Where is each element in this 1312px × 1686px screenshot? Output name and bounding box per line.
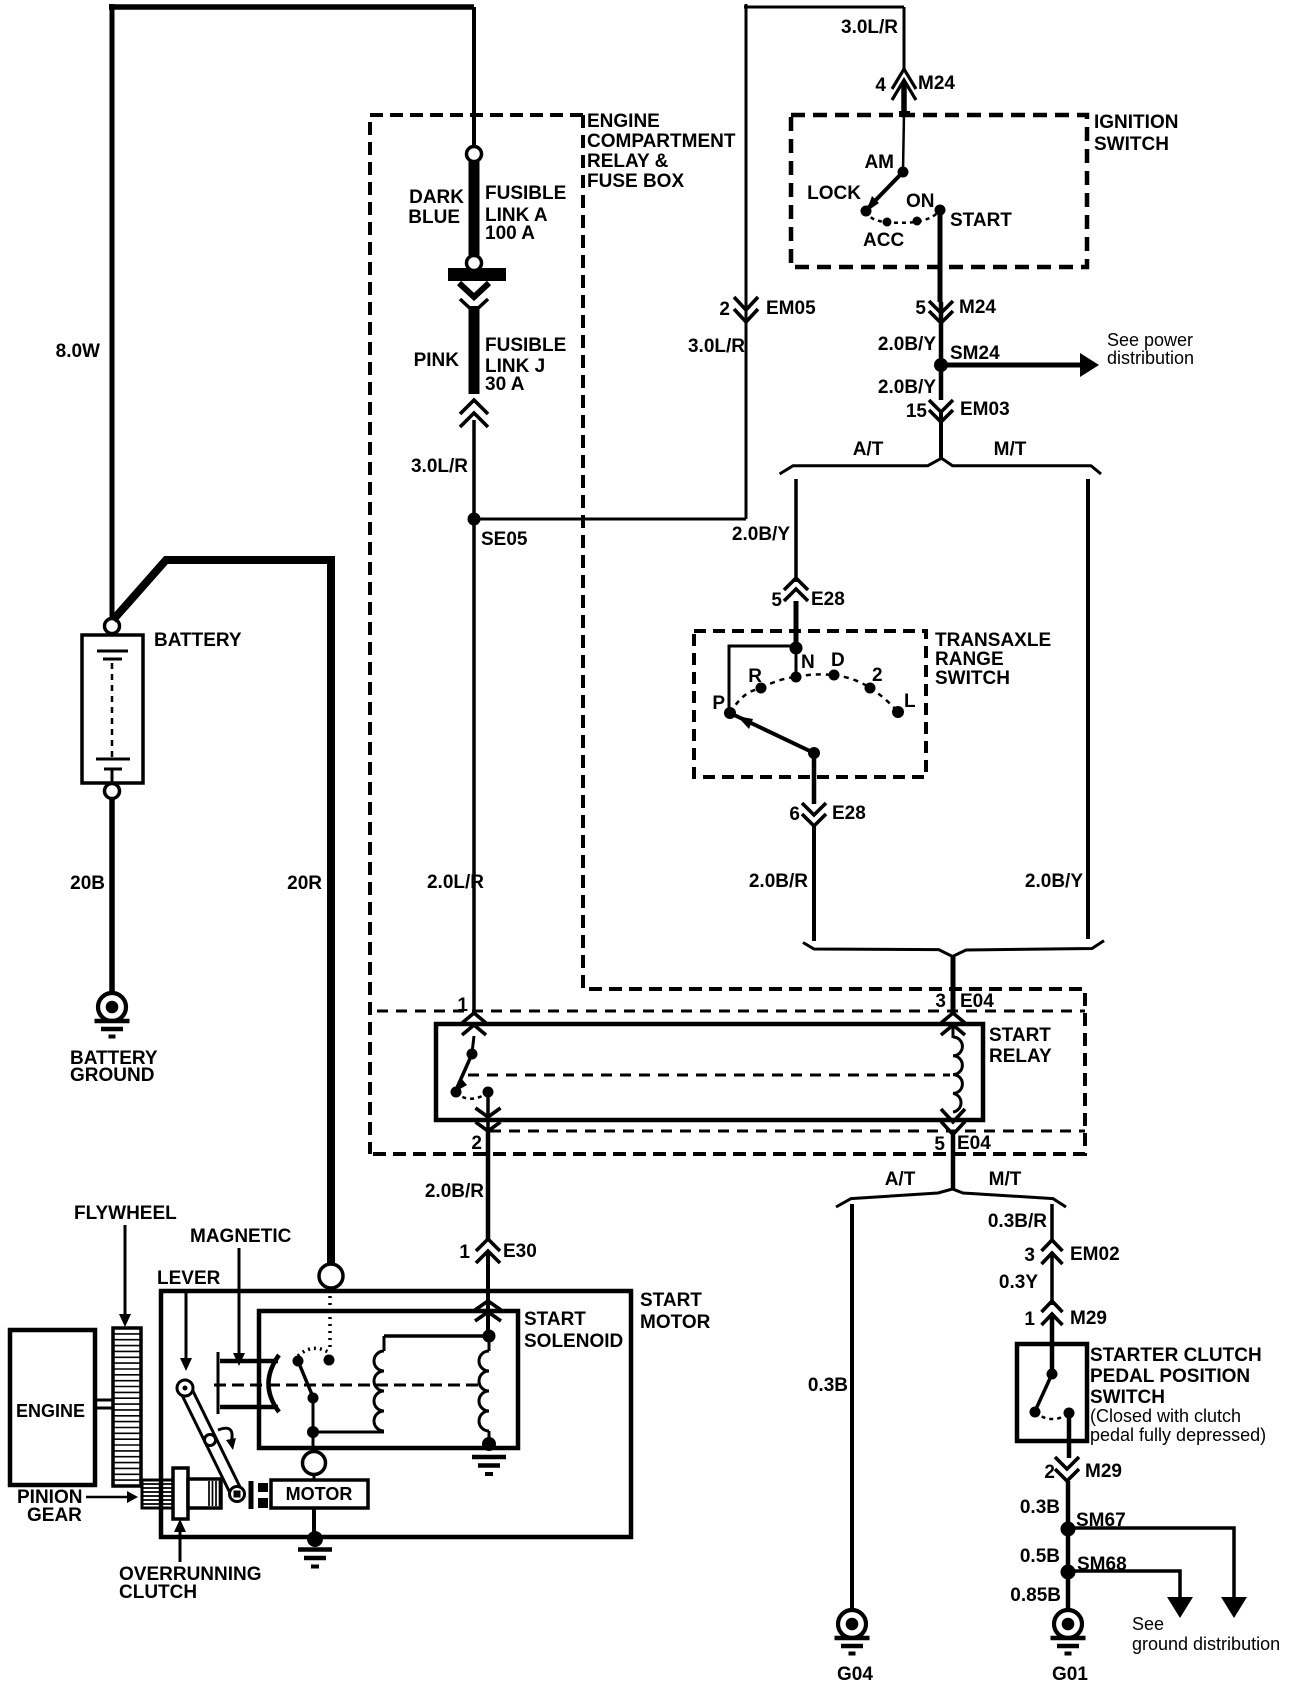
dotted arc solenoid contact bbox=[298, 1348, 328, 1356]
svg-text:2.0B/Y: 2.0B/Y bbox=[732, 524, 790, 545]
connector chevrons below fuse holder bbox=[459, 283, 489, 297]
connector E28 pin 6 bbox=[802, 803, 826, 815]
wire START output bbox=[938, 210, 943, 302]
solenoid switch blade bbox=[298, 1361, 313, 1397]
svg-text:E04: E04 bbox=[957, 1133, 991, 1154]
clutch switch output contact bbox=[1064, 1408, 1075, 1419]
magnet core flange bbox=[217, 1352, 220, 1414]
clutch switch blade bbox=[1036, 1374, 1052, 1409]
ground start motor bbox=[298, 1547, 332, 1552]
svg-text:2.0L/R: 2.0L/R bbox=[427, 872, 484, 893]
svg-text:2: 2 bbox=[471, 1133, 482, 1154]
svg-text:D: D bbox=[831, 650, 845, 671]
svg-text:START: START bbox=[524, 1309, 586, 1330]
svg-text:0.3B: 0.3B bbox=[1020, 1497, 1060, 1518]
overrunning clutch bbox=[173, 1468, 188, 1519]
svg-text:3: 3 bbox=[935, 991, 946, 1012]
switch wiper P to common bbox=[730, 713, 814, 753]
svg-text:EM03: EM03 bbox=[960, 399, 1010, 420]
wire 2.0B/R relay to E30 bbox=[486, 1131, 491, 1240]
svg-text:E28: E28 bbox=[832, 803, 866, 824]
clutch switch open contact bbox=[1030, 1407, 1041, 1418]
lever rotation arrow bbox=[218, 1428, 232, 1443]
dashed box engine compartment relay & fuse box bbox=[370, 115, 583, 1154]
svg-text:DARK: DARK bbox=[409, 187, 464, 208]
pinion gear bbox=[142, 1480, 174, 1508]
wire split brace below relay bbox=[836, 1189, 1066, 1207]
connector M24 pin 4 bbox=[892, 69, 916, 89]
wire 2.0B/R to merge bbox=[812, 826, 816, 941]
node terminal circle above fusible link A bbox=[467, 147, 482, 162]
node R contact bbox=[756, 683, 767, 694]
svg-text:LEVER: LEVER bbox=[157, 1268, 221, 1289]
dashed arc switch positions bbox=[866, 210, 940, 223]
relay switch open contact bbox=[451, 1087, 462, 1098]
svg-text:EM05: EM05 bbox=[766, 298, 816, 319]
svg-text:ENGINE: ENGINE bbox=[16, 1401, 85, 1421]
motor terminal circle bbox=[303, 1452, 326, 1475]
svg-text:GEAR: GEAR bbox=[27, 1505, 82, 1526]
svg-text:2.0B/Y: 2.0B/Y bbox=[878, 334, 936, 355]
node SM24 splice bbox=[934, 358, 948, 372]
connector M29 pin 2 bbox=[1055, 1457, 1079, 1469]
wire 20R battery to start motor bbox=[113, 560, 331, 1264]
wire to motor bbox=[313, 1474, 316, 1481]
svg-text:2: 2 bbox=[1044, 1462, 1055, 1483]
dashed box transaxle range switch bbox=[694, 631, 926, 777]
svg-text:SE05: SE05 bbox=[481, 529, 528, 550]
svg-text:M/T: M/T bbox=[989, 1169, 1022, 1190]
battery internal dashed bbox=[111, 663, 114, 757]
wire relay output pin 2 bbox=[486, 1092, 490, 1135]
start motor terminal circle bbox=[319, 1264, 343, 1288]
relay switch fixed contact bbox=[472, 1036, 474, 1053]
dashed arc relay contact bbox=[456, 1092, 488, 1099]
svg-text:GROUND: GROUND bbox=[70, 1065, 154, 1086]
node motor ground bbox=[307, 1531, 323, 1547]
svg-text:TRANSAXLE: TRANSAXLE bbox=[935, 630, 1051, 651]
connector M24 pin 5 bbox=[929, 301, 953, 313]
svg-text:SWITCH: SWITCH bbox=[1094, 134, 1169, 155]
node N contact bbox=[795, 648, 798, 675]
wire common output down bbox=[812, 753, 817, 804]
start relay box bbox=[436, 1024, 983, 1120]
svg-text:5: 5 bbox=[915, 298, 926, 319]
svg-text:A/T: A/T bbox=[885, 1169, 916, 1190]
svg-text:2: 2 bbox=[872, 665, 883, 686]
node LOCK contact bbox=[861, 206, 872, 217]
connector E28 pin 5 bbox=[784, 578, 808, 590]
lever end bbox=[230, 1487, 245, 1502]
svg-text:2.0B/R: 2.0B/R bbox=[425, 1181, 484, 1202]
svg-text:3.0L/R: 3.0L/R bbox=[411, 456, 468, 477]
wire 0.3B/R M/T branch bbox=[1050, 1204, 1054, 1241]
svg-text:20R: 20R bbox=[287, 873, 322, 894]
svg-text:ON: ON bbox=[906, 191, 935, 212]
battery bbox=[82, 635, 143, 783]
solenoid contact left bbox=[293, 1356, 304, 1367]
wire down to fusible link A bbox=[472, 7, 476, 149]
lever pivot top bbox=[177, 1380, 193, 1396]
connector EM05 pin 2 bbox=[734, 297, 758, 310]
svg-text:E04: E04 bbox=[960, 991, 994, 1012]
lever pivot middle bbox=[205, 1435, 216, 1446]
wire 2.0B/Y A/T branch to E28 bbox=[794, 479, 798, 582]
svg-text:distribution: distribution bbox=[1107, 348, 1194, 368]
svg-text:SWITCH: SWITCH bbox=[935, 668, 1010, 689]
solenoid hold-in coil bbox=[488, 1336, 491, 1351]
svg-text:LOCK: LOCK bbox=[807, 183, 861, 204]
svg-text:M24: M24 bbox=[918, 73, 955, 94]
wire SM24 to EM03 bbox=[939, 365, 944, 400]
svg-text:L: L bbox=[904, 691, 916, 712]
ground G04 bbox=[838, 1610, 866, 1638]
wire top horizontal from battery feed to fusible link bbox=[109, 4, 474, 10]
svg-text:A/T: A/T bbox=[853, 439, 884, 460]
svg-text:0.5B: 0.5B bbox=[1020, 1546, 1060, 1567]
wire EM03 to A/T M/T split bbox=[939, 412, 943, 459]
magnet core top bbox=[220, 1359, 278, 1364]
fusible link J 30 A (pink) bbox=[469, 306, 480, 394]
svg-text:2: 2 bbox=[719, 299, 730, 320]
wire merge brace to start relay bbox=[803, 941, 1104, 957]
svg-text:3.0L/R: 3.0L/R bbox=[688, 336, 745, 357]
motor box bbox=[271, 1480, 368, 1508]
svg-text:BLUE: BLUE bbox=[408, 207, 460, 228]
svg-text:See power: See power bbox=[1107, 330, 1193, 350]
svg-text:3: 3 bbox=[1024, 1245, 1035, 1266]
svg-text:FUSE BOX: FUSE BOX bbox=[587, 171, 684, 192]
magnet core crescent bbox=[269, 1355, 280, 1412]
wire SM67 branch to ground distribution bbox=[1068, 1528, 1234, 1599]
wire see power distribution arrow bbox=[941, 363, 1082, 368]
svg-text:RELAY &: RELAY & bbox=[587, 151, 669, 172]
node AM contact bbox=[898, 167, 909, 178]
svg-text:RANGE: RANGE bbox=[935, 649, 1004, 670]
wire coil top bbox=[384, 1334, 489, 1338]
svg-text:2.0B/R: 2.0B/R bbox=[749, 871, 808, 892]
svg-text:ENGINE: ENGINE bbox=[587, 111, 660, 132]
svg-text:0.3B/R: 0.3B/R bbox=[988, 1211, 1047, 1232]
svg-text:1: 1 bbox=[1024, 1309, 1035, 1330]
svg-text:R: R bbox=[748, 666, 762, 687]
node SM67 splice bbox=[1061, 1522, 1076, 1537]
engine box bbox=[10, 1330, 95, 1485]
node hold-in coil ground bbox=[482, 1437, 496, 1451]
magnet core bottom bbox=[220, 1405, 278, 1410]
wire 3.0L/R from link J down to SE05 bbox=[472, 420, 476, 519]
dashed line relay compartment bottom bbox=[490, 1130, 1085, 1133]
connector M29 pin 1 bbox=[1042, 1301, 1063, 1312]
svg-text:RELAY: RELAY bbox=[989, 1046, 1052, 1067]
switch blade AM to LOCK bbox=[868, 172, 903, 208]
node START contact bbox=[935, 205, 946, 216]
wire motor to ground bbox=[312, 1508, 316, 1533]
wire into clutch pedal switch bbox=[1050, 1314, 1055, 1374]
wire SE05 horizontal to ignition feed bbox=[474, 518, 746, 521]
wire relay output to A/T M/T split 2 bbox=[951, 1134, 956, 1190]
start motor box bbox=[161, 1291, 631, 1537]
svg-text:0.3B: 0.3B bbox=[808, 1375, 848, 1396]
wire 0.3Y bbox=[1050, 1252, 1054, 1305]
svg-text:PEDAL POSITION: PEDAL POSITION bbox=[1090, 1366, 1250, 1387]
wire junction to pull-in coil bbox=[313, 1431, 384, 1434]
wire into ignition switch bbox=[901, 82, 907, 114]
lever arm bbox=[180, 1385, 241, 1495]
svg-text:2.0B/Y: 2.0B/Y bbox=[1025, 871, 1083, 892]
wire 0.3B to SM67 bbox=[1066, 1481, 1071, 1611]
node SE05 junction bbox=[468, 513, 481, 526]
svg-text:START: START bbox=[989, 1025, 1051, 1046]
svg-text:FLYWHEEL: FLYWHEEL bbox=[74, 1203, 177, 1224]
svg-text:8.0W: 8.0W bbox=[56, 341, 100, 362]
connector E30 pin 1 bbox=[476, 1239, 500, 1251]
motor brushes bbox=[249, 1481, 254, 1509]
svg-text:pedal fully depressed): pedal fully depressed) bbox=[1090, 1425, 1266, 1445]
node SM68 splice bbox=[1061, 1565, 1076, 1580]
svg-text:FUSIBLE: FUSIBLE bbox=[485, 335, 566, 356]
svg-text:M29: M29 bbox=[1070, 1308, 1107, 1329]
battery plate bottom bbox=[96, 758, 130, 761]
svg-text:START: START bbox=[640, 1290, 702, 1311]
wire SM68 branch to ground distribution bbox=[1068, 1571, 1180, 1599]
wire down to connector M24 pin 4 bbox=[903, 7, 906, 69]
svg-text:5: 5 bbox=[771, 590, 782, 611]
dashed arc clutch switch bbox=[1035, 1412, 1069, 1419]
box starter clutch pedal position switch bbox=[1017, 1344, 1087, 1441]
dashed box ignition switch bbox=[791, 115, 1087, 267]
node P contact bbox=[724, 707, 736, 719]
svg-text:PINK: PINK bbox=[414, 350, 460, 371]
fusible link A 100 A (dark blue) bbox=[469, 161, 480, 256]
svg-text:G01: G01 bbox=[1052, 1664, 1088, 1685]
connector E04 pin 5 bbox=[941, 1109, 965, 1122]
svg-text:4: 4 bbox=[875, 75, 886, 96]
svg-text:SWITCH: SWITCH bbox=[1090, 1387, 1165, 1408]
battery plate top bbox=[97, 650, 128, 653]
svg-text:100 A: 100 A bbox=[485, 223, 535, 244]
svg-text:(Closed with clutch: (Closed with clutch bbox=[1090, 1406, 1241, 1426]
node ACC contacts bbox=[883, 218, 892, 227]
svg-text:ACC: ACC bbox=[863, 230, 904, 251]
ground solenoid coil bbox=[472, 1455, 506, 1460]
connector EM03 pin 15 bbox=[929, 400, 953, 412]
svg-text:See: See bbox=[1132, 1614, 1164, 1634]
wire split brace A/T M/T bbox=[780, 458, 1101, 474]
svg-text:IGNITION: IGNITION bbox=[1094, 112, 1178, 133]
ground G01 bbox=[1054, 1610, 1082, 1638]
svg-text:AM: AM bbox=[864, 152, 894, 173]
svg-text:STARTER CLUTCH: STARTER CLUTCH bbox=[1090, 1345, 1262, 1366]
wire 0.3B A/T branch to ground G04 bbox=[850, 1204, 854, 1611]
svg-text:BATTERY: BATTERY bbox=[154, 630, 242, 651]
svg-text:E30: E30 bbox=[503, 1241, 537, 1262]
dashed line relay compartment top bbox=[377, 1010, 1085, 1013]
svg-text:MOTOR: MOTOR bbox=[640, 1312, 711, 1333]
solenoid pull-in coil bbox=[383, 1336, 386, 1351]
node input junction bbox=[790, 642, 803, 655]
wire junction down to motor terminal bbox=[312, 1432, 315, 1452]
dashed line relay armature link bbox=[468, 1074, 950, 1077]
dotted wire terminal to solenoid contact bbox=[328, 1289, 332, 1352]
wire 2.0B/Y M/T branch bbox=[1086, 479, 1090, 939]
svg-text:0.3Y: 0.3Y bbox=[999, 1272, 1038, 1293]
wire into transaxle range switch bbox=[794, 601, 799, 647]
clutch switch fixed contact bbox=[1047, 1369, 1058, 1380]
relay coil bbox=[952, 1026, 955, 1038]
svg-text:SOLENOID: SOLENOID bbox=[524, 1331, 623, 1352]
dashed solenoid plunger axis bbox=[214, 1384, 480, 1387]
svg-text:30 A: 30 A bbox=[485, 374, 525, 395]
wire E30 into start motor bbox=[486, 1251, 490, 1336]
svg-text:EM02: EM02 bbox=[1070, 1244, 1120, 1265]
svg-text:G04: G04 bbox=[837, 1664, 873, 1685]
relay switch closed contact bbox=[483, 1087, 494, 1098]
svg-text:3.0L/R: 3.0L/R bbox=[841, 17, 898, 38]
flywheel ring gear bbox=[113, 1328, 141, 1486]
svg-text:MAGNETIC: MAGNETIC bbox=[190, 1226, 292, 1247]
svg-text:15: 15 bbox=[906, 401, 928, 422]
wire 2.0L/R from SE05 to relay bbox=[472, 519, 476, 1012]
wire 3.0L/R vertical ignition feed bbox=[745, 4, 748, 519]
svg-text:2.0B/Y: 2.0B/Y bbox=[878, 377, 936, 398]
node 2 contact bbox=[865, 683, 876, 694]
svg-text:MOTOR: MOTOR bbox=[286, 1484, 353, 1504]
wire to SM24 bbox=[939, 302, 944, 365]
svg-text:P: P bbox=[712, 693, 725, 714]
connector chevrons solenoid input bbox=[475, 1301, 501, 1310]
svg-text:M/T: M/T bbox=[994, 439, 1027, 460]
node D contact bbox=[829, 670, 840, 681]
start solenoid box bbox=[259, 1311, 518, 1448]
wire 20B battery to ground bbox=[109, 798, 115, 996]
svg-text:M24: M24 bbox=[959, 297, 996, 318]
node common output bbox=[808, 747, 820, 759]
node L contact bbox=[892, 706, 904, 718]
connector chevrons below link J bbox=[460, 400, 488, 414]
connector chevrons relay pin 2 bbox=[476, 1108, 501, 1117]
wire 8.0W battery positive feed (left vertical) bbox=[110, 4, 115, 619]
svg-text:SM24: SM24 bbox=[950, 343, 1000, 364]
svg-text:1: 1 bbox=[457, 995, 468, 1016]
svg-text:0.85B: 0.85B bbox=[1010, 1585, 1061, 1606]
node blade lower bbox=[308, 1393, 319, 1404]
node solenoid coil junction bbox=[483, 1330, 496, 1343]
solenoid contact right bbox=[324, 1355, 335, 1366]
connector EM02 pin 3 bbox=[1042, 1240, 1063, 1251]
svg-text:FUSIBLE: FUSIBLE bbox=[485, 183, 566, 204]
svg-text:5: 5 bbox=[934, 1134, 945, 1155]
dashed arc range positions bbox=[730, 674, 898, 713]
engine flywheel shaft bbox=[95, 1399, 113, 1402]
battery negative terminal bbox=[105, 784, 120, 799]
svg-text:N: N bbox=[801, 652, 815, 673]
svg-text:6: 6 bbox=[789, 804, 800, 825]
battery positive terminal bbox=[105, 619, 120, 634]
svg-text:20B: 20B bbox=[70, 873, 105, 894]
wire junction to P contact bbox=[729, 646, 796, 710]
node motor junction bbox=[307, 1426, 319, 1438]
battery ground symbol bbox=[98, 993, 126, 1021]
svg-text:ground distribution: ground distribution bbox=[1132, 1634, 1280, 1654]
fuse holder bar bbox=[448, 268, 506, 281]
relay switch blade bbox=[456, 1054, 472, 1090]
svg-text:CLUTCH: CLUTCH bbox=[119, 1582, 197, 1603]
wire top horizontal to ignition switch bbox=[744, 6, 904, 9]
svg-text:1: 1 bbox=[459, 1242, 470, 1263]
svg-text:START: START bbox=[950, 210, 1012, 231]
svg-text:E28: E28 bbox=[811, 589, 845, 610]
svg-text:COMPARTMENT: COMPARTMENT bbox=[587, 131, 736, 152]
node terminal circle between links bbox=[467, 256, 482, 271]
wire clutch switch output bbox=[1067, 1413, 1072, 1458]
svg-text:M29: M29 bbox=[1085, 1461, 1122, 1482]
